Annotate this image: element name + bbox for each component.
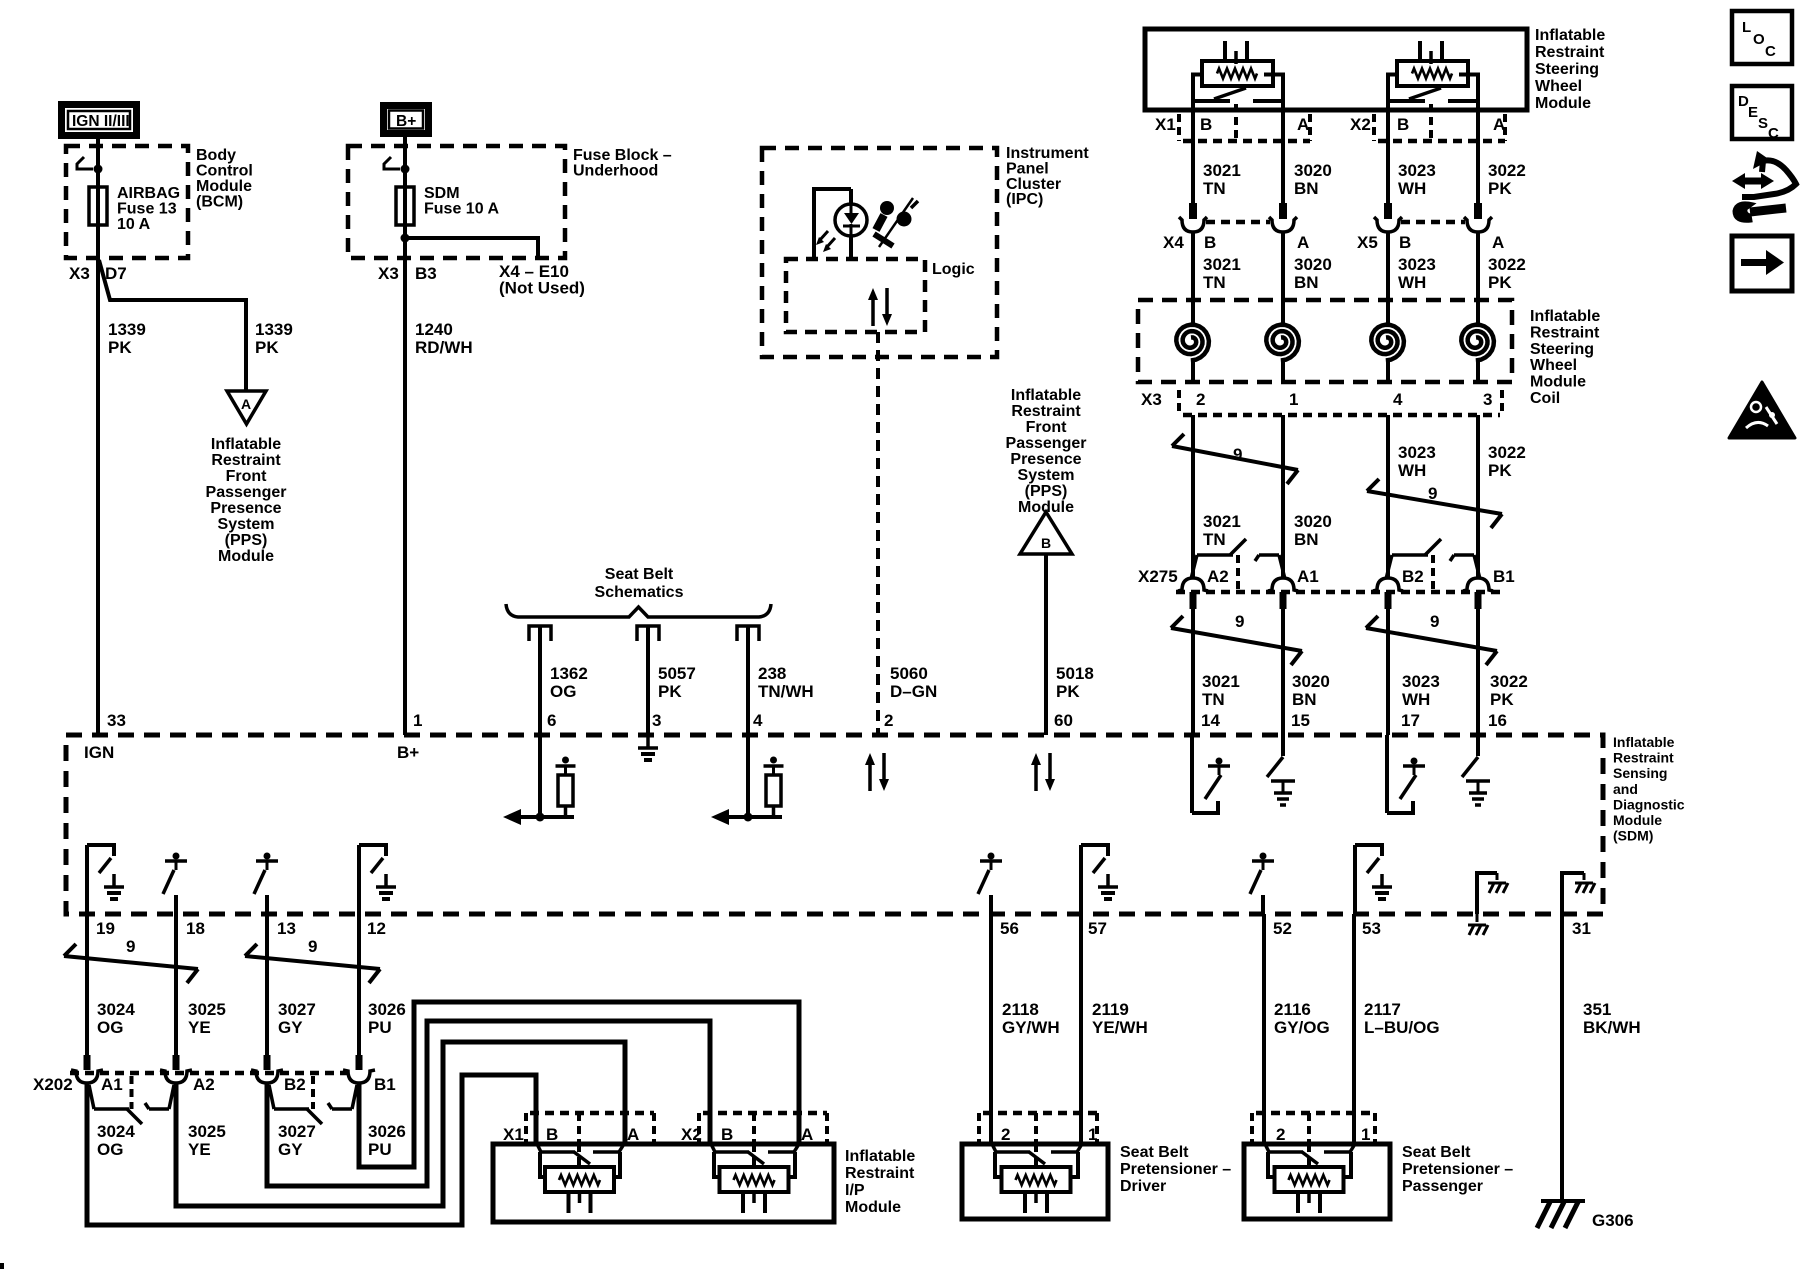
blade + ground (pin 15) [1267,735,1295,805]
svg-text:Pretensioner –: Pretensioner – [1402,1161,1513,1178]
wire X3 to X275 x=1283 [1281,415,1285,578]
svg-text:B: B [721,1125,733,1144]
svg-text:14: 14 [1201,711,1220,730]
wire at x=1388 inline connector to coil [1386,232,1390,300]
svg-text:B+: B+ [397,743,419,762]
warning triangle icon [1729,382,1795,438]
svg-text:X4: X4 [1163,233,1184,252]
svg-text:B2: B2 [284,1075,306,1094]
svg-text:1: 1 [1088,1125,1097,1144]
I/P squib 1 [537,1144,624,1213]
svg-text:B: B [1200,115,1212,134]
labels X3 2 1 4 3 [1141,390,1492,409]
wire at x=1388 module to inline connector [1386,110,1390,203]
wire 3027 GY routed to X2-B [267,1021,710,1186]
svg-text:X3: X3 [69,264,90,283]
labels 3027 GY 3026 PU (row2) [278,1122,406,1159]
wire X275 to SDM x=1283 [1281,609,1285,735]
svg-text:BN: BN [1292,690,1317,709]
labels X202 A1 A2 B2 B1 [33,1075,396,1094]
svg-text:2: 2 [884,711,893,730]
svg-text:WH: WH [1402,690,1430,709]
wire at x=1283 module to inline connector [1281,110,1285,203]
svg-text:C: C [1768,125,1779,142]
label 9 [1235,612,1244,631]
svg-text:3021: 3021 [1203,512,1241,531]
svg-text:D–GN: D–GN [890,682,937,701]
svg-text:33: 33 [107,711,126,730]
switch+ground (pin 19) [87,845,124,914]
Inflatable Restraint I/P Module box [493,1144,834,1222]
svg-text:WH: WH [1398,179,1426,198]
wire X275 to SDM x=1193 [1191,609,1195,735]
label Seat Belt Pretensioner - Passenger [1402,1144,1513,1195]
wire 3025 YE routed to X1-A [176,1042,625,1206]
labels 3027 GY 3026 PU (row1) [278,1000,406,1037]
airbag telltale LED [835,204,867,236]
pin 31 hook to chassis ground [1562,873,1595,914]
label 5057 PK [658,664,696,701]
svg-text:X2: X2 [681,1125,702,1144]
svg-text:(PPS): (PPS) [225,532,268,549]
svg-text:YE: YE [188,1018,211,1037]
wire 3026 PU routed to X2-A [359,1002,799,1167]
svg-text:9: 9 [126,937,135,956]
labels 3021 TN 3020 BN (row1) [1203,161,1332,198]
bidirectional arrows (pin 60) [1031,753,1055,791]
double arrow + wrench icon [1732,151,1796,221]
label 5060 D-GN [890,664,937,701]
wire at x=1283 inline connector to coil [1281,232,1285,300]
fuse holder clip + junction, BCM [77,157,103,174]
svg-text:3: 3 [652,711,661,730]
svg-text:(Not Used): (Not Used) [499,279,585,298]
svg-text:OG: OG [550,682,576,701]
wire SDM to X202 x=87 [85,914,89,1056]
svg-text:3020: 3020 [1294,512,1332,531]
DESC icon box [1732,86,1792,142]
svg-text:IGN: IGN [84,743,114,762]
svg-text:PU: PU [368,1140,392,1159]
wire through coil x=1283 [1281,300,1285,382]
wire 2119 YE/WH [1079,914,1083,1144]
svg-text:Front: Front [1026,419,1068,436]
svg-text:3024: 3024 [97,1000,135,1019]
label steering wheel module [1535,27,1605,112]
clockspring coil at x=1283 [1266,325,1299,361]
svg-text:3023: 3023 [1398,443,1436,462]
label PPS Module (right) [1006,387,1087,516]
SDM dashed box [66,735,1603,914]
labels X1 B A [1155,115,1309,134]
Inflatable Restraint Steering Wheel Module Coil dashed box [1138,300,1512,382]
svg-text:2: 2 [1196,390,1205,409]
ground G306 [1537,1201,1585,1228]
svg-text:1240: 1240 [415,320,453,339]
svg-text:13: 13 [277,919,296,938]
svg-text:3021: 3021 [1203,255,1241,274]
power feed IGN II/III box [62,105,137,136]
label Seat Belt Pretensioner - Driver [1120,1144,1231,1195]
Inflatable Restraint Steering Wheel Module box [1145,29,1527,110]
chassis ground below line [1468,914,1488,935]
svg-text:BN: BN [1294,273,1319,292]
label 9 [308,937,317,956]
svg-text:Underhood: Underhood [573,163,658,180]
svg-text:B1: B1 [1493,567,1515,586]
indicator lamp loop wiring [814,189,851,258]
svg-text:Sensing: Sensing [1613,765,1667,781]
svg-text:Module: Module [1530,374,1586,391]
svg-text:5018: 5018 [1056,664,1094,683]
svg-text:1: 1 [1361,1125,1370,1144]
inline connector X5 [1374,203,1492,232]
svg-text:A2: A2 [1207,567,1229,586]
svg-text:O: O [1753,31,1765,48]
svg-text:Steering: Steering [1530,341,1594,358]
junction dot + X4-E10 stub [401,234,539,259]
svg-text:Inflatable: Inflatable [1535,27,1605,44]
fuse holder clip + junction, fuse block [384,157,410,174]
label 9 [126,937,135,956]
label 351 BK/WH [1583,1000,1641,1037]
connector X2 (I/P) dashes [699,1113,827,1167]
svg-text:(IPC): (IPC) [1006,191,1043,208]
svg-text:2118: 2118 [1002,1000,1039,1019]
svg-text:3026: 3026 [368,1122,406,1141]
svg-text:L–BU/OG: L–BU/OG [1364,1018,1440,1037]
wire through coil x=1478 [1476,300,1480,382]
svg-text:Restraint: Restraint [1535,44,1605,61]
wire SDM to X202 x=359 [357,914,361,1056]
connector X202 dashed line [70,1071,348,1076]
labels X3 B3 X4-E10 [378,262,585,298]
svg-text:Seat Belt: Seat Belt [1402,1144,1471,1161]
svg-text:B+: B+ [396,113,416,130]
off-page connector triangle A [227,391,266,424]
svg-text:9: 9 [1235,612,1244,631]
svg-text:B: B [1204,233,1216,252]
pullup/resistor stub (pin 6) [503,735,576,825]
label SDM Fuse 10 A [424,185,499,218]
logic box up/down arrows [868,288,892,326]
clockspring coil at x=1388 [1371,325,1404,361]
twisted pair crossing (left, upper) [1172,434,1298,484]
driver pretensioner squib [992,1144,1082,1213]
svg-text:X1: X1 [503,1125,524,1144]
svg-text:3025: 3025 [188,1000,226,1019]
svg-text:6: 6 [547,711,556,730]
svg-text:2: 2 [1276,1125,1285,1144]
pin labels top [107,711,1507,730]
svg-text:9: 9 [1233,445,1242,464]
label coil [1530,308,1600,407]
svg-text:PK: PK [255,338,279,357]
svg-text:Module: Module [1613,812,1662,828]
inline connector X4 [1179,203,1297,232]
svg-text:OG: OG [97,1140,123,1159]
svg-text:4: 4 [753,711,763,730]
svg-text:Inflatable: Inflatable [211,436,281,453]
arrow icon box [1732,236,1792,291]
svg-text:3021: 3021 [1202,672,1240,691]
svg-text:3023: 3023 [1398,255,1436,274]
svg-text:SDM: SDM [424,185,460,202]
svg-text:A: A [801,1125,813,1144]
label 9 [1233,445,1242,464]
Instrument Panel Cluster dashed box [762,148,997,357]
switch+ground (pin 57) [1081,845,1118,914]
svg-text:A2: A2 [193,1075,215,1094]
svg-text:Fuse Block –: Fuse Block – [573,147,672,164]
svg-text:3023: 3023 [1398,161,1436,180]
svg-text:GY: GY [278,1018,303,1037]
svg-text:1: 1 [1289,390,1298,409]
connector X2 dashes [1374,104,1505,141]
svg-text:X1: X1 [1155,115,1176,134]
wire 2118 GY/WH [989,914,993,1144]
svg-text:L: L [1742,19,1751,36]
svg-text:GY/OG: GY/OG [1274,1018,1330,1037]
svg-text:and: and [1613,781,1638,797]
twisted pair crossing (right, lower) [1366,616,1497,665]
svg-text:1339: 1339 [255,320,293,339]
wire 1339 PK (pin 33 branch) [96,258,100,735]
labels X4 B A [1163,233,1309,252]
svg-text:OG: OG [97,1018,123,1037]
twisted pair crossing (left, lower) [1171,616,1302,665]
switch to contact (pin 14) [1192,735,1230,813]
label 238 TN/WH [758,664,814,701]
wire X275 to SDM x=1388 [1386,609,1390,735]
seat belt stub connector (pin 4) [737,626,759,641]
labels X2 B A [1350,115,1505,134]
svg-text:X2: X2 [1350,115,1371,134]
svg-text:Logic: Logic [932,261,975,278]
labels 3023 WH 3022 PK (row1) [1398,161,1526,198]
ground inside SDM (pin 3) [638,735,658,760]
svg-text:Module: Module [218,548,274,565]
labels 3021 TN 3020 BN (row3) [1203,512,1332,549]
svg-text:Passenger: Passenger [206,484,287,501]
labels 2118 GY/WH 2119 YE/WH [1002,1000,1148,1037]
wire X3 to X275 x=1478 [1476,415,1480,578]
svg-text:52: 52 [1273,919,1292,938]
svg-text:3022: 3022 [1488,161,1526,180]
svg-text:3: 3 [1483,390,1492,409]
svg-text:A: A [1492,233,1504,252]
blade + ground (pin 16) [1462,735,1490,805]
svg-text:Schematics: Schematics [595,584,684,601]
svg-text:GY/WH: GY/WH [1002,1018,1060,1037]
svg-text:238: 238 [758,664,786,683]
svg-text:Fuse 10 A: Fuse 10 A [424,201,499,218]
labels 2 1 (passenger) [1276,1125,1370,1144]
svg-text:3022: 3022 [1490,672,1528,691]
labels X2 B A (I/P) [681,1125,813,1144]
svg-text:BN: BN [1294,179,1319,198]
labels X275 A2 A1 B2 B1 [1138,567,1515,586]
svg-text:X3: X3 [378,264,399,283]
label 1339 PK left [108,320,146,357]
label 9 [1430,612,1439,631]
svg-text:C: C [1765,43,1776,60]
pullup/resistor stub (pin 4) [711,735,784,825]
labels 3023 WH 3022 PK (row4) [1402,672,1528,709]
svg-text:I/P: I/P [845,1182,865,1199]
svg-text:B: B [546,1125,558,1144]
svg-text:Body: Body [196,147,236,164]
svg-text:B2: B2 [1402,567,1424,586]
svg-text:3023: 3023 [1402,672,1440,691]
svg-text:9: 9 [1428,484,1437,503]
svg-text:9: 9 [308,937,317,956]
svg-text:2117: 2117 [1364,1000,1401,1019]
driver airbag squib (stage 1) [1193,41,1283,110]
label I/P module [845,1148,915,1216]
svg-text:Coil: Coil [1530,390,1560,407]
labels 3023 WH 3022 PK (row3) [1398,443,1526,480]
svg-text:D7: D7 [105,264,127,283]
svg-text:TN: TN [1202,690,1225,709]
connector X202 terminals [71,1055,375,1083]
svg-text:A: A [1297,233,1309,252]
T-dot switch (pin 56) [978,853,1002,915]
label Seat Belt Schematics [595,566,684,601]
svg-text:Inflatable: Inflatable [1011,387,1081,404]
svg-text:BN: BN [1294,530,1319,549]
svg-text:A1: A1 [1297,567,1319,586]
svg-text:Inflatable: Inflatable [1613,734,1675,750]
svg-text:53: 53 [1362,919,1381,938]
svg-text:2116: 2116 [1274,1000,1311,1019]
svg-text:3025: 3025 [188,1122,226,1141]
svg-text:Seat Belt: Seat Belt [1120,1144,1189,1161]
wire to SDM pin 4 [746,626,750,735]
svg-text:3027: 3027 [278,1000,316,1019]
label Fuse Block - Underhood [573,147,672,180]
svg-text:Restraint: Restraint [1011,403,1081,420]
svg-text:WH: WH [1398,461,1426,480]
Fuse Block Underhood dashed box [348,146,565,258]
brace [506,604,771,617]
wire through coil x=1193 [1191,300,1195,382]
svg-text:Driver: Driver [1120,1178,1166,1195]
svg-text:5057: 5057 [658,664,696,683]
svg-text:A: A [627,1125,639,1144]
svg-text:1362: 1362 [550,664,588,683]
wire 5060 D-GN (dashed) [876,332,880,733]
svg-text:Control: Control [196,163,253,180]
svg-text:A1: A1 [101,1075,123,1094]
svg-text:3021: 3021 [1203,161,1241,180]
connector X202 shorting bars B2-B1 [269,1076,357,1124]
connector X202 shorting bars A1-A2 [89,1076,174,1124]
labels 3021 TN 3020 BN (row4) [1202,672,1330,709]
wire 1339 PK branch to PPS [99,260,246,391]
wire at x=1478 inline connector to coil [1476,232,1480,300]
svg-text:TN: TN [1203,530,1226,549]
svg-text:X275: X275 [1138,567,1178,586]
wire X3 to X275 x=1388 [1386,415,1390,578]
wire 2116 GY/OG [1262,914,1266,1144]
svg-text:Inflatable: Inflatable [1530,308,1600,325]
connector X275 dashed line [1176,590,1502,595]
svg-text:B: B [1041,535,1051,551]
svg-text:Pretensioner –: Pretensioner – [1120,1161,1231,1178]
Seat Belt Pretensioner Driver box [962,1144,1108,1219]
driver airbag squib (stage 2) [1388,41,1478,110]
svg-text:12: 12 [367,919,386,938]
connector X1 dashes [1179,104,1310,141]
svg-text:PK: PK [1488,461,1512,480]
wire through coil x=1388 [1386,300,1390,382]
svg-text:YE: YE [188,1140,211,1159]
svg-text:A: A [241,396,251,412]
labels 3023 WH 3022 PK (row2) [1398,255,1526,292]
svg-text:PK: PK [1490,690,1514,709]
svg-text:Restraint: Restraint [1613,750,1674,766]
svg-text:GY: GY [278,1140,303,1159]
svg-text:X3: X3 [1141,390,1162,409]
svg-text:57: 57 [1088,919,1107,938]
label G306 [1592,1211,1634,1230]
svg-text:X5: X5 [1357,233,1378,252]
labels 3024 OG 3025 YE (row2) [97,1122,226,1159]
svg-text:WH: WH [1398,273,1426,292]
Seat Belt Pretensioner Passenger box [1244,1144,1390,1219]
svg-text:PK: PK [108,338,132,357]
svg-text:Steering: Steering [1535,61,1599,78]
LED light rays [816,231,835,252]
svg-text:System: System [1018,467,1075,484]
label 1362 OG [550,664,588,701]
label 5018 PK [1056,664,1094,701]
labels 2 1 (driver) [1001,1125,1097,1144]
label Instrument Panel Cluster (IPC) [1006,145,1089,208]
svg-text:PK: PK [1056,682,1080,701]
svg-text:Fuse 13: Fuse 13 [117,201,177,218]
label SDM [1613,734,1685,844]
svg-text:56: 56 [1000,919,1019,938]
T-dot switch (pin 52) [1250,853,1274,915]
T-dot switch (pin 13) [254,853,278,915]
svg-text:10 A: 10 A [117,216,151,233]
Logic dashed box [786,259,925,332]
svg-text:YE/WH: YE/WH [1092,1018,1148,1037]
svg-text:B: B [1399,233,1411,252]
wire to SDM pin 3 [646,626,650,735]
svg-text:15: 15 [1291,711,1310,730]
svg-text:Inflatable: Inflatable [845,1148,915,1165]
svg-text:X202: X202 [33,1075,73,1094]
svg-text:3020: 3020 [1294,161,1332,180]
svg-text:3024: 3024 [97,1122,135,1141]
svg-text:2: 2 [1001,1125,1010,1144]
svg-text:Restraint: Restraint [845,1165,915,1182]
svg-text:TN: TN [1203,179,1226,198]
switch+ground (pin 12) [359,845,396,914]
svg-text:RD/WH: RD/WH [415,338,473,357]
Body Control Module dashed box [66,146,188,258]
labels IGN B+ [84,743,419,762]
svg-text:31: 31 [1572,919,1591,938]
clockspring coil at x=1193 [1176,325,1209,361]
labels X1 B A (I/P) [503,1125,639,1144]
wire from B+ into fuse block [403,137,407,187]
svg-text:3020: 3020 [1294,255,1332,274]
label 1240 RD/WH [415,320,473,357]
